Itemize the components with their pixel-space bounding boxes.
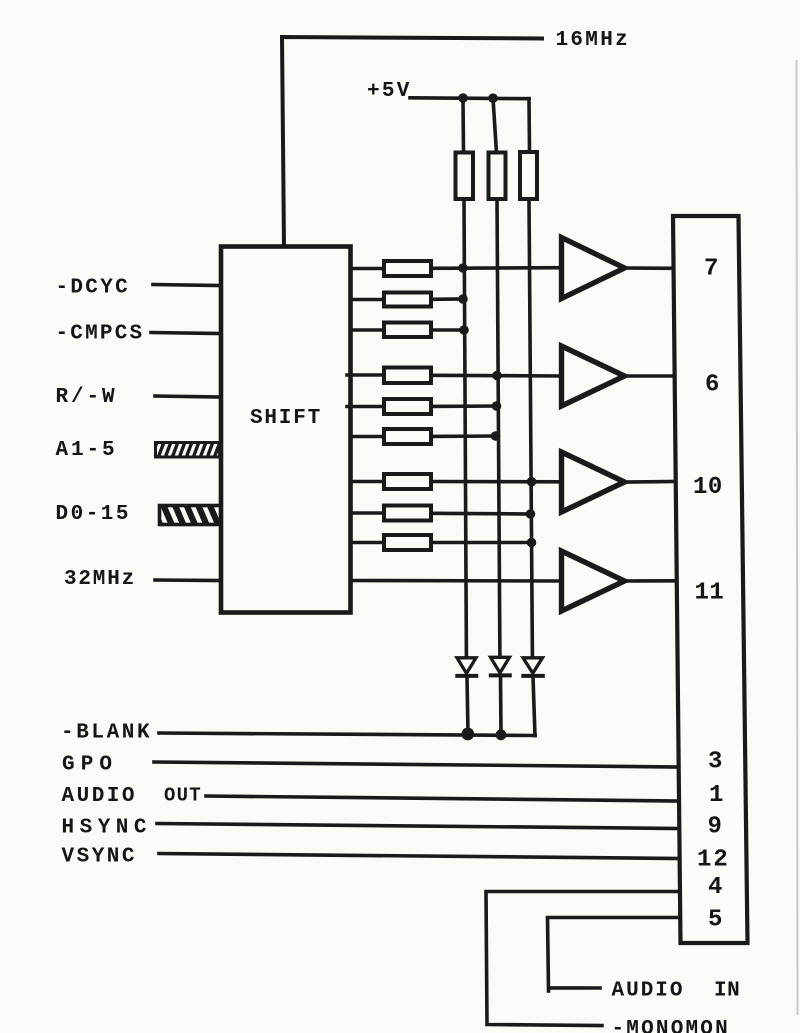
wire row6 left [351,435,385,439]
connector J1 body [673,216,748,943]
wire D1 to -BLANK [467,677,468,734]
wire -CMPCS input [151,333,221,334]
wire row3 left [351,328,385,332]
wire pin 4 to -MONOMON [486,892,680,1026]
resistor R1 [456,153,474,200]
wire row5 left [347,405,384,409]
wire row2 right [431,297,463,301]
wire +5V to R1 [461,98,465,153]
svg-text:3: 3 [708,749,722,776]
wire D3 to -BLANK [533,677,535,736]
wire U3 output [625,374,676,378]
svg-text:9: 9 [708,814,722,841]
wire U2 output [625,266,675,270]
wire R/-W input [155,396,221,397]
resistor R3 [520,152,537,199]
node +5V/R2 [488,93,498,103]
wire U4 output [625,480,676,484]
wire -DCYC input [153,285,221,286]
wire row6 right [431,434,496,438]
diode D2 [491,657,510,673]
svg-text:-BLANK: -BLANK [61,722,152,745]
svg-text:6: 6 [705,372,719,399]
wire 32MHz to buffer U5 [351,579,562,583]
svg-text:VSYNC: VSYNC [62,846,138,869]
svg-text:HSYNC: HSYNC [62,817,153,840]
node +5V/R1 [458,93,468,103]
resistor R9 [384,429,431,444]
resistor R5 [384,293,431,307]
svg-text:-DCYC: -DCYC [56,277,131,300]
wire U5 output [625,579,677,583]
svg-text:R/-W: R/-W [56,386,118,409]
resistor R6 [384,323,431,338]
wire row1 left [351,267,385,271]
svg-text:5: 5 [708,907,722,934]
wire -BLANK [159,733,535,736]
wire row4 to buffer U3 [431,373,562,377]
svg-text:16MHz: 16MHz [556,29,631,52]
wire +5V to R3 [527,99,531,153]
resistor R4 [384,261,431,276]
wire D2 to -BLANK [499,676,503,735]
svg-text:+5V: +5V [367,80,412,103]
wire row7 left [351,480,385,484]
node row3/line1 [459,325,469,335]
svg-text:D0-15: D0-15 [56,503,132,526]
wire pin 5 to AUDIO IN [548,918,681,992]
node row7/line3 [527,477,537,487]
wire R2 to D2 [497,199,500,655]
buffer U4 [562,452,625,512]
wire +5V to R2 [493,98,497,153]
bus D0-15 hatched [160,506,221,525]
svg-text:-MONOMON: -MONOMON [612,1018,730,1033]
diode D3 [523,658,543,674]
svg-text:AUDIO: AUDIO [612,980,685,1003]
node row5/line2 [492,401,502,411]
wire row9 left [351,541,385,545]
svg-text:4: 4 [708,874,722,901]
resistor R2 [489,153,506,200]
svg-text:11: 11 [695,580,725,607]
wire 16MHz net [282,37,542,247]
wire +5V rail [410,96,529,100]
svg-text:7: 7 [704,256,718,283]
resistor R8 [384,399,431,414]
node -BLANK/D1 [461,728,474,741]
svg-text:SHIFT: SHIFT [250,407,322,430]
wire row5 right [431,404,497,408]
svg-text:IN: IN [714,980,740,1003]
svg-text:AUDIO: AUDIO [62,785,138,808]
node row2/line1 [458,294,468,304]
wire row3 right [431,328,464,332]
svg-text:32MHz: 32MHz [64,568,136,591]
wire row2 left [351,298,385,302]
node row8/line3 [526,509,536,519]
wire HSYNC to pin 9 [157,824,679,829]
wire row9 right [431,541,532,545]
wire row7 to buffer U4 [431,480,562,484]
resistor R10 [384,474,431,489]
svg-text:A1-5: A1-5 [56,439,118,462]
svg-text:12: 12 [697,847,730,874]
buffer U5 [562,551,625,611]
wire row4 left [347,373,384,377]
node row4/line2 [492,371,502,381]
bus A1-5 hatched [156,443,220,458]
node row9/line3 [527,538,537,548]
wire R3 to D3 [529,199,532,656]
svg-text:1: 1 [709,782,723,809]
resistor R11 [384,506,431,521]
wire GPO to pin 3 [154,762,679,767]
resistor R7 [384,368,431,384]
wire R1 to D1 [464,199,466,656]
wire 32MHz input [155,578,221,582]
node row6/line2 [491,431,501,441]
wire AUDIO OUT to pin 1 [206,796,679,801]
buffer U3 [562,346,625,406]
wire row8 left [351,511,385,515]
node -BLANK/D2 [496,729,507,740]
svg-text:OUT: OUT [164,785,202,807]
svg-text:-CMPCS: -CMPCS [56,323,145,346]
buffer U2 [562,238,625,299]
wire VSYNC to pin 12 [159,854,680,859]
resistor R12 [384,535,431,550]
diode D1 [457,658,476,674]
node row1/line1 [458,263,468,273]
wire row1 to buffer U2 [431,266,562,270]
svg-text:GPO: GPO [62,754,118,777]
IC U1 SHIFT box [221,247,351,613]
wire row8 right [431,511,531,515]
svg-text:10: 10 [693,474,723,501]
